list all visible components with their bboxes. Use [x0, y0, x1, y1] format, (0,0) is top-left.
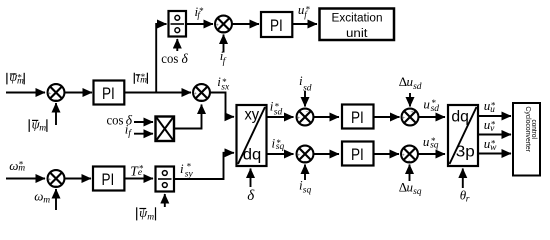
svg-text:m: m — [147, 212, 154, 222]
svg-text:PI: PI — [102, 170, 115, 189]
svg-text:+: + — [216, 23, 219, 29]
division block torque — [156, 167, 175, 192]
wire delta-usd into D1 — [409, 93, 411, 107]
svg-text:sq: sq — [303, 186, 312, 196]
svg-text:+: + — [48, 177, 51, 183]
svg-text:cos: cos — [161, 52, 178, 67]
node Te-star label — [130, 163, 143, 178]
node if-star label — [195, 4, 204, 20]
svg-text:e: e — [138, 168, 142, 178]
node isq label — [299, 178, 311, 196]
svg-text:ω: ω — [34, 188, 43, 203]
node isy-star label — [180, 161, 193, 179]
xy-dq transform block — [237, 105, 267, 166]
wire cos-delta into multiplier — [134, 121, 153, 123]
cycloconverter control block — [513, 103, 540, 176]
svg-text:u: u — [490, 105, 495, 115]
svg-text:−: − — [306, 110, 309, 116]
svg-text:sd: sd — [274, 108, 283, 118]
wire isq into P2 — [304, 165, 306, 181]
wire uu-star — [478, 115, 511, 117]
summing junction B1 — [48, 84, 65, 103]
svg-text:u: u — [423, 134, 430, 149]
svg-text:sd: sd — [413, 82, 422, 92]
PI controller flux — [94, 81, 125, 105]
svg-text:−: − — [304, 159, 307, 165]
wire PI to excitation unit, uf-star — [292, 23, 317, 25]
svg-text:m: m — [18, 164, 25, 174]
svg-text:sq: sq — [276, 142, 285, 152]
svg-text:sq: sq — [430, 141, 439, 151]
wire division to xy-dq block, isy-star — [174, 153, 234, 179]
summing junction B2 — [193, 84, 210, 103]
svg-text:cos: cos — [107, 113, 124, 128]
wire PI to B2 — [124, 92, 191, 94]
wire uw-star — [478, 153, 511, 155]
svg-text:+: + — [408, 159, 411, 165]
svg-text:PI: PI — [351, 145, 364, 164]
svg-text:PI: PI — [102, 84, 115, 103]
svg-text:sq: sq — [413, 187, 422, 197]
svg-text:−: − — [54, 183, 57, 189]
node if label top — [220, 48, 227, 67]
wire A to PI excitation — [232, 23, 259, 25]
node uv-star label — [484, 117, 496, 134]
svg-text:ω: ω — [9, 158, 18, 173]
svg-text:u: u — [423, 97, 430, 112]
wire P1 to PI d — [314, 116, 339, 118]
node if label mid — [125, 122, 133, 140]
summing junction P2 — [297, 146, 314, 165]
wire cos-delta into division block — [176, 39, 178, 51]
svg-text:m: m — [39, 124, 46, 134]
PI controller d-axis — [342, 105, 374, 129]
PI controller speed — [93, 167, 124, 191]
summing junction D1 — [402, 109, 419, 126]
wire branch up to division block — [156, 24, 166, 93]
node uf-star label — [298, 2, 310, 19]
node omega-star label — [9, 158, 25, 174]
svg-text:sy: sy — [185, 170, 194, 180]
excitation unit block — [320, 9, 395, 41]
svg-text:xy: xy — [245, 106, 260, 123]
svg-text:m: m — [140, 76, 147, 86]
wire D1 to dq-3p, usd-star — [419, 116, 445, 118]
PI controller excitation — [261, 12, 292, 37]
multiplier block — [156, 117, 175, 142]
svg-text:m: m — [43, 195, 50, 205]
svg-text:+: + — [411, 110, 414, 116]
wire delta into xy-dq — [250, 169, 252, 188]
division block excitation — [169, 11, 187, 37]
svg-text:sx: sx — [221, 83, 230, 93]
wire if into multiplier — [134, 133, 153, 135]
svg-text:i: i — [180, 161, 184, 176]
wire isd into P1 — [304, 91, 306, 107]
svg-text:−: − — [222, 29, 225, 35]
svg-text:unit: unit — [346, 28, 368, 40]
wire xy-dq to P2, isq-star — [267, 153, 294, 155]
svg-text:r: r — [466, 195, 470, 205]
svg-text:−: − — [54, 97, 57, 103]
wire PI to division block, Te-star — [124, 178, 153, 180]
summing junction D2 — [401, 146, 418, 165]
node im-star label — [134, 69, 147, 85]
svg-text:dq: dq — [451, 108, 469, 125]
wire division to junction A, if-star — [186, 23, 213, 25]
svg-text:m: m — [17, 76, 24, 86]
svg-text:−: − — [200, 97, 203, 103]
svg-text:+: + — [48, 91, 51, 97]
wire uv-star — [478, 134, 511, 136]
node psi-m feedback label — [29, 116, 47, 133]
node delta-usd label — [399, 74, 422, 92]
svg-text:+: + — [402, 153, 405, 159]
svg-text:Excitation: Excitation — [332, 12, 383, 24]
node isd-star label — [270, 99, 283, 118]
svg-text:+: + — [194, 91, 197, 97]
svg-text:+: + — [402, 116, 405, 122]
node psi-m label bottom — [137, 205, 156, 222]
svg-text:sd: sd — [431, 104, 440, 114]
node uw-star label — [484, 136, 497, 153]
node usq-star label — [423, 134, 439, 151]
wire if feedback into A — [223, 35, 225, 53]
wire B2 to xy-dq block, isx-star — [210, 93, 234, 117]
wire xy-dq to P1, isd-star — [267, 116, 294, 118]
node theta-r label — [460, 188, 470, 205]
node usd-star label — [423, 97, 439, 114]
wire psi-m into division block — [164, 194, 166, 207]
svg-text:PI: PI — [270, 16, 283, 35]
wire D2 to dq-3p, usq-star — [419, 153, 446, 155]
wire multiplier to B2 — [174, 105, 202, 129]
wire P2 to PI q — [314, 153, 339, 155]
node isx-star label — [217, 74, 230, 93]
svg-text:control: control — [530, 119, 539, 139]
wire PI to D1 — [374, 116, 400, 118]
node delta-usq label — [399, 179, 422, 197]
PI controller q-axis — [342, 142, 374, 166]
svg-text:dq: dq — [243, 147, 261, 164]
wire C to PI speed — [65, 178, 91, 180]
svg-text:PI: PI — [351, 108, 364, 127]
wire input psi-m-star — [6, 92, 45, 94]
wire PI to D2 — [374, 153, 400, 155]
svg-text:+: + — [297, 153, 300, 159]
svg-text:3p: 3p — [456, 143, 475, 160]
node isd label — [299, 73, 312, 93]
wire omega feedback — [55, 189, 57, 210]
wire input omega-star — [6, 178, 45, 180]
summing junction P1 — [297, 109, 314, 126]
svg-text:+: + — [297, 116, 300, 122]
svg-text:w: w — [490, 143, 497, 153]
svg-text:sd: sd — [303, 83, 312, 93]
wire B1 to PI — [65, 92, 92, 94]
summing junction C — [48, 170, 65, 189]
node cos-delta label top — [161, 51, 188, 67]
summing junction A — [215, 16, 232, 35]
wire theta-r into dq-3p — [462, 169, 464, 189]
wire delta-usq into D2 — [409, 165, 411, 182]
svg-text:δ: δ — [182, 51, 189, 66]
node isq-star label — [272, 135, 285, 152]
dq-3p transform block — [448, 105, 478, 166]
wire psi-m feedback — [55, 103, 57, 125]
node cos-delta label mid — [107, 112, 133, 128]
node psi-m-star label — [7, 69, 24, 86]
node omega label — [34, 188, 50, 205]
svg-text:δ: δ — [247, 188, 255, 204]
node uu-star label — [484, 98, 496, 115]
